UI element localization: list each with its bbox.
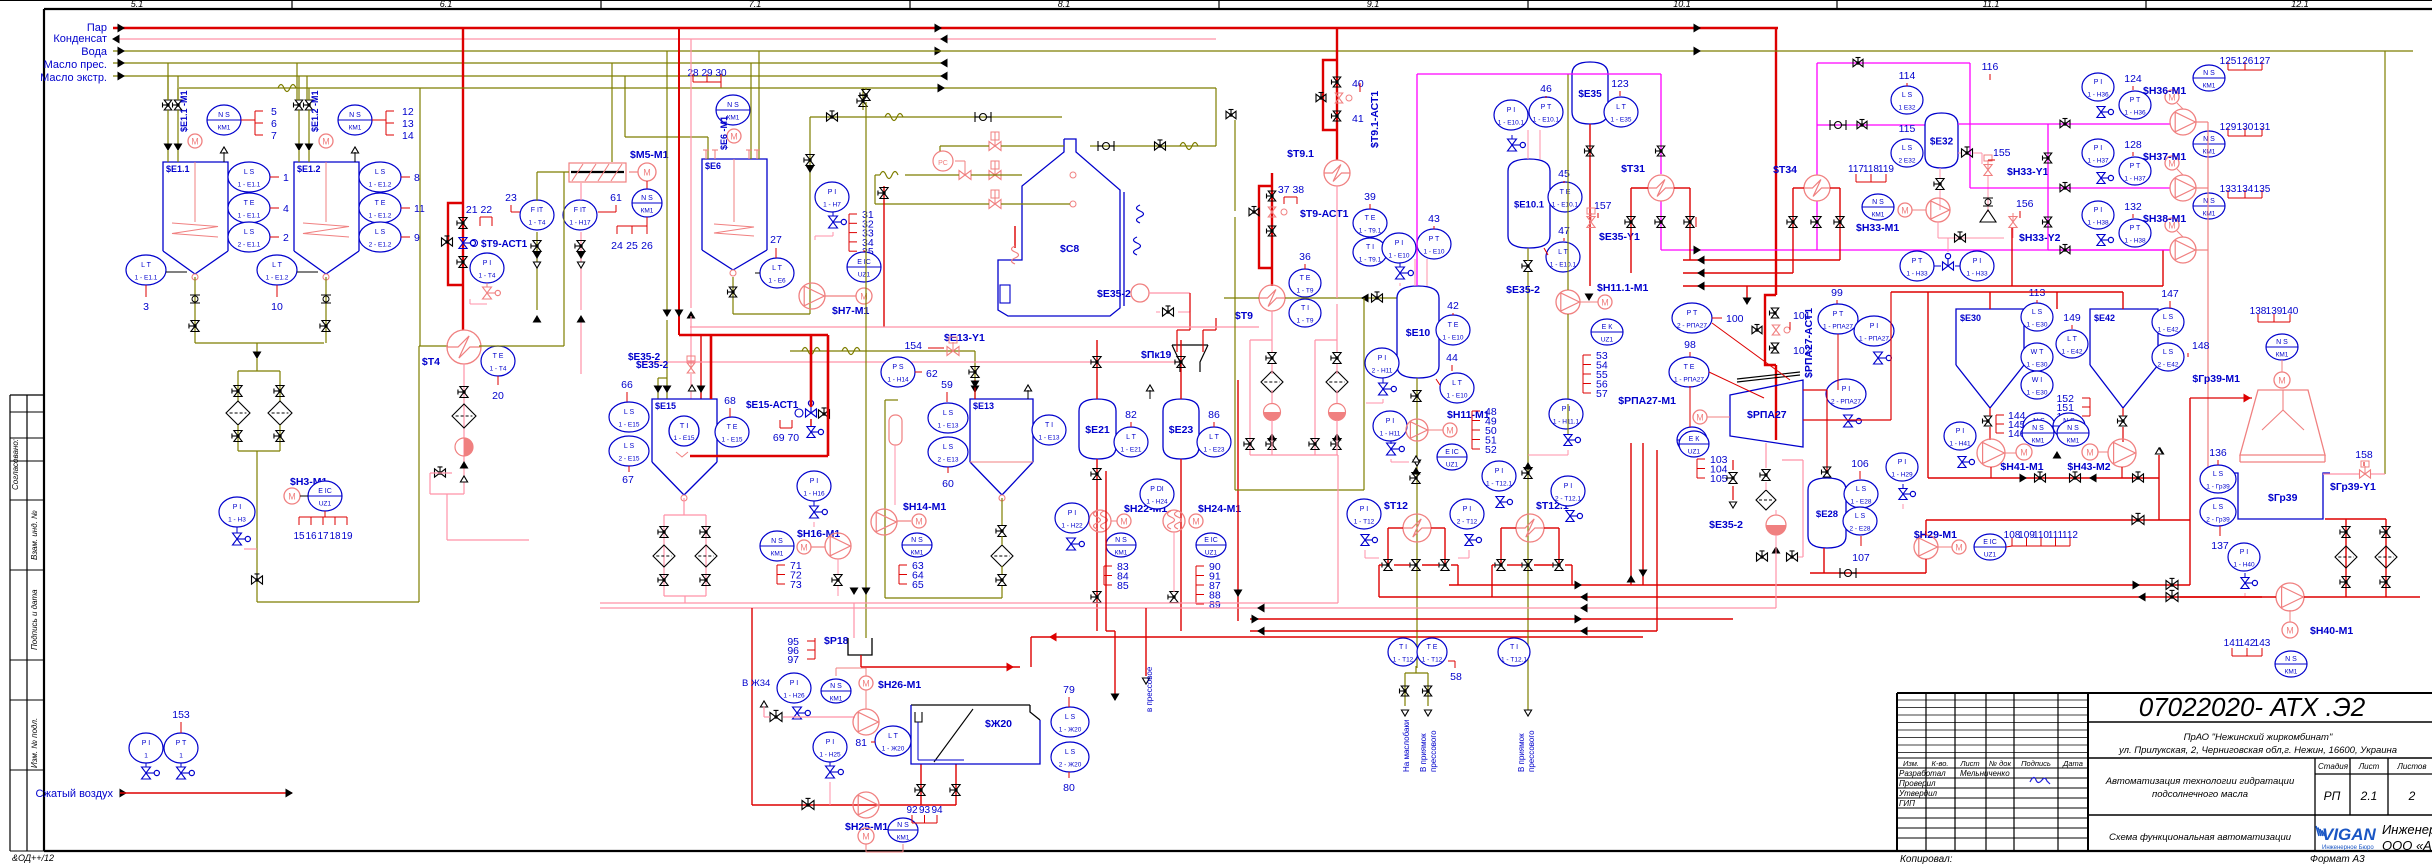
svg-text:P I: P I: [1360, 506, 1368, 513]
svg-text:4: 4: [283, 203, 289, 215]
svg-text:36: 36: [1299, 251, 1311, 263]
svg-text:M: M: [730, 132, 738, 142]
svg-text:T E: T E: [727, 424, 738, 431]
svg-text:P T: P T: [2130, 163, 2141, 170]
svg-text:P I: P I: [1842, 386, 1850, 393]
svg-text:20: 20: [492, 390, 504, 402]
svg-text:M: M: [862, 679, 870, 689]
svg-text:1 - Е21: 1 - Е21: [1121, 447, 1142, 454]
svg-text:1 - Ж20: 1 - Ж20: [882, 746, 905, 753]
svg-text:12.1: 12.1: [2291, 0, 2309, 9]
svg-text:1 - РПА27: 1 - РПА27: [1674, 377, 1704, 384]
svg-text:L T: L T: [141, 262, 151, 269]
svg-text:$Е10: $Е10: [1406, 327, 1431, 339]
svg-text:P I: P I: [1386, 418, 1394, 425]
svg-text:1 - Т12.1: 1 - Т12.1: [1486, 481, 1512, 488]
svg-text:8.1: 8.1: [1058, 0, 1071, 9]
svg-text:2 - Е42: 2 - Е42: [2158, 362, 2179, 369]
svg-text:99: 99: [1831, 287, 1843, 299]
svg-text:P I: P I: [1395, 240, 1403, 247]
svg-text:3: 3: [143, 301, 149, 313]
svg-text:123: 123: [1611, 78, 1629, 90]
svg-text:L S: L S: [244, 229, 255, 236]
svg-text:UZ1: UZ1: [1205, 550, 1218, 557]
svg-text:P I: P I: [810, 478, 818, 485]
svg-text:L S: L S: [1065, 714, 1076, 721]
svg-text:42: 42: [1447, 300, 1459, 312]
svg-text:P I: P I: [1068, 510, 1076, 517]
svg-text:89: 89: [1209, 599, 1221, 611]
svg-text:27: 27: [770, 234, 782, 246]
svg-text:39: 39: [1364, 191, 1376, 203]
svg-text:P T: P T: [1912, 258, 1923, 265]
svg-text:$Т9.1: $Т9.1: [1287, 148, 1314, 160]
svg-text:$Е35-2: $Е35-2: [1709, 519, 1743, 531]
svg-text:T I: T I: [1510, 644, 1518, 651]
svg-text:$Н33-Y2: $Н33-Y2: [2019, 232, 2061, 244]
svg-text:T E: T E: [1427, 644, 1438, 651]
svg-text:115: 115: [1899, 123, 1916, 135]
svg-text:№ док: № док: [1989, 759, 2012, 768]
svg-text:T I: T I: [1301, 305, 1309, 312]
svg-text:69 70: 69 70: [773, 432, 799, 444]
svg-text:46: 46: [1540, 83, 1552, 95]
svg-text:128: 128: [2124, 139, 2142, 151]
svg-text:N S: N S: [1115, 537, 1127, 544]
svg-text:L T: L T: [1616, 104, 1626, 111]
svg-text:2 - Е13: 2 - Е13: [938, 457, 959, 464]
svg-text:125: 125: [2220, 56, 2237, 67]
svg-text:157: 157: [1594, 200, 1612, 212]
svg-text:N S: N S: [2285, 656, 2297, 663]
svg-text:1 - Е1.1: 1 - Е1.1: [238, 182, 261, 189]
svg-text:2 - Е1.1: 2 - Е1.1: [238, 242, 261, 249]
svg-text:80: 80: [1063, 782, 1075, 794]
svg-text:12: 12: [402, 106, 414, 118]
svg-text:2 - Е1.2: 2 - Е1.2: [369, 242, 392, 249]
svg-text:Изм. № подл.: Изм. № подл.: [30, 718, 39, 768]
svg-text:$Н41-М1: $Н41-М1: [2000, 461, 2043, 473]
svg-text:73: 73: [790, 579, 802, 591]
svg-text:L T: L T: [888, 733, 898, 740]
svg-text:6: 6: [271, 118, 277, 130]
svg-text:T I: T I: [1045, 422, 1053, 429]
svg-text:E IC: E IC: [1445, 449, 1459, 456]
svg-text:68: 68: [724, 395, 736, 407]
svg-text:81: 81: [855, 737, 867, 749]
svg-text:1 Е32: 1 Е32: [1899, 105, 1916, 112]
svg-text:P I: P I: [828, 189, 836, 196]
svg-text:M: M: [1192, 517, 1200, 527]
svg-text:1 - Т9: 1 - Т9: [1297, 318, 1314, 325]
svg-text:L S: L S: [1855, 513, 1866, 520]
svg-text:29: 29: [701, 68, 713, 79]
svg-text:11.1: 11.1: [1983, 0, 2000, 9]
svg-text:$Т9: $Т9: [1235, 310, 1253, 322]
svg-text:97: 97: [787, 654, 799, 666]
svg-text:$Н43-М2: $Н43-М2: [2067, 461, 2110, 473]
svg-text:L T: L T: [1209, 434, 1219, 441]
svg-text:&ОД++/12: &ОД++/12: [12, 853, 54, 863]
svg-text:1: 1: [144, 753, 148, 760]
svg-text:$Н33-М1: $Н33-М1: [1856, 222, 1899, 234]
svg-text:M: M: [1120, 517, 1128, 527]
svg-text:Автоматизация технологии гидра: Автоматизация технологии гидратации: [2105, 776, 2295, 787]
svg-text:$Е42: $Е42: [2094, 313, 2115, 323]
svg-text:L S: L S: [244, 169, 255, 176]
svg-text:10.1: 10.1: [1673, 0, 1691, 9]
svg-text:Конденсат: Конденсат: [53, 33, 107, 45]
svg-text:$Е10.1: $Е10.1: [1514, 200, 1545, 211]
svg-text:$Е15: $Е15: [655, 401, 676, 411]
svg-text:126: 126: [2237, 56, 2254, 67]
svg-text:L S: L S: [1065, 749, 1076, 756]
svg-text:M: M: [1601, 298, 1609, 308]
svg-text:116: 116: [1982, 61, 1999, 73]
svg-text:N S: N S: [218, 112, 230, 119]
svg-text:$М5-М1: $М5-М1: [630, 149, 669, 161]
svg-text:1 - Е15: 1 - Е15: [674, 435, 695, 442]
svg-text:113: 113: [2029, 287, 2046, 299]
svg-text:2 Е32: 2 Е32: [1899, 158, 1916, 165]
svg-text:135: 135: [2254, 184, 2271, 195]
svg-text:2 - Е28: 2 - Е28: [1850, 526, 1871, 533]
svg-text:прессового: прессового: [1429, 730, 1438, 772]
svg-text:$Т9-АСТ1: $Т9-АСТ1: [1300, 208, 1349, 220]
svg-text:ПрАО "Нежинский жиркомбинат": ПрАО "Нежинский жиркомбинат": [2184, 732, 2333, 743]
svg-text:1 - Н41: 1 - Н41: [1949, 441, 1971, 448]
svg-text:21 22: 21 22: [466, 204, 492, 216]
svg-text:L T: L T: [1126, 434, 1136, 441]
svg-text:P T: P T: [1833, 311, 1844, 318]
svg-text:UZ1: UZ1: [1984, 552, 1997, 559]
svg-text:P I: P I: [1495, 468, 1503, 475]
svg-text:1 - Н24: 1 - Н24: [1146, 499, 1168, 506]
svg-text:1 - Т4: 1 - Т4: [479, 273, 496, 280]
svg-text:КМ1: КМ1: [897, 835, 910, 842]
svg-text:1 - Е1.1: 1 - Е1.1: [135, 275, 158, 282]
svg-text:N S: N S: [2067, 425, 2079, 432]
svg-text:N S: N S: [897, 822, 909, 829]
svg-text:$Н40-М1: $Н40-М1: [2310, 625, 2353, 637]
svg-text:9: 9: [414, 232, 420, 244]
svg-text:66: 66: [621, 379, 633, 391]
svg-text:L S: L S: [375, 169, 386, 176]
svg-text:16: 16: [305, 531, 317, 542]
svg-text:M: M: [2020, 448, 2028, 458]
svg-text:P I: P I: [1378, 355, 1386, 362]
svg-text:17: 17: [317, 531, 329, 542]
svg-text:N S: N S: [2032, 425, 2044, 432]
svg-text:T I: T I: [1366, 244, 1374, 251]
svg-text:W I: W I: [2032, 377, 2043, 384]
svg-text:62: 62: [926, 368, 938, 380]
svg-text:Дата: Дата: [2062, 759, 2083, 768]
svg-text:L S: L S: [2032, 309, 2043, 316]
svg-text:$Т9-АСТ1: $Т9-АСТ1: [481, 239, 528, 250]
svg-text:1 - Н16: 1 - Н16: [803, 491, 825, 498]
svg-text:1 - Е1.2: 1 - Е1.2: [266, 275, 289, 282]
svg-text:156: 156: [2016, 198, 2034, 210]
svg-text:94: 94: [931, 805, 943, 816]
svg-text:$E1.2 -М1: $E1.2 -М1: [310, 90, 320, 132]
svg-text:T E: T E: [244, 200, 255, 207]
svg-text:7: 7: [271, 130, 277, 142]
svg-text:L S: L S: [1902, 92, 1913, 99]
svg-text:136: 136: [2209, 447, 2227, 459]
svg-text:$Е23: $Е23: [1169, 424, 1194, 436]
svg-text:$E1.1 -М1: $E1.1 -М1: [179, 90, 189, 132]
svg-text:1 - Н25: 1 - Н25: [819, 752, 841, 759]
svg-text:82: 82: [1125, 409, 1137, 421]
svg-text:UZ1: UZ1: [319, 501, 332, 508]
svg-text:ООО «Авиган»: ООО «Авиган»: [2382, 838, 2432, 853]
svg-text:1 - Е10.1: 1 - Е10.1: [1498, 120, 1525, 127]
svg-text:07022020- АТХ .Э2: 07022020- АТХ .Э2: [2139, 692, 2366, 722]
svg-text:$РПА27-АСТ1: $РПА27-АСТ1: [1803, 308, 1815, 378]
svg-text:155: 155: [1993, 147, 2011, 159]
svg-text:5: 5: [271, 106, 277, 118]
svg-text:P I: P I: [483, 260, 491, 267]
svg-text:КМ1: КМ1: [2203, 149, 2216, 156]
svg-text:105: 105: [1710, 473, 1728, 485]
svg-text:1 - Е15: 1 - Е15: [722, 437, 743, 444]
svg-text:T E: T E: [1300, 275, 1311, 282]
svg-text:10: 10: [271, 301, 283, 313]
svg-text:1 - Е13: 1 - Е13: [938, 423, 959, 430]
svg-text:$Н24-М1: $Н24-М1: [1198, 503, 1241, 515]
svg-text:37 38: 37 38: [1278, 184, 1304, 196]
svg-text:M: M: [191, 137, 199, 147]
svg-text:КМ1: КМ1: [2203, 83, 2216, 90]
svg-text:61: 61: [610, 192, 622, 204]
svg-text:Согласовано:: Согласовано:: [11, 439, 20, 490]
svg-text:1 - Т9: 1 - Т9: [1297, 288, 1314, 295]
svg-text:К-во.: К-во.: [1932, 759, 1949, 768]
svg-text:1 - Т12: 1 - Т12: [1393, 657, 1414, 664]
svg-text:65: 65: [912, 579, 924, 591]
svg-text:L T: L T: [1452, 380, 1462, 387]
svg-text:N S: N S: [727, 102, 739, 109]
svg-text:1 - Е42: 1 - Е42: [2158, 327, 2179, 334]
svg-text:1 - Ж20: 1 - Ж20: [1059, 727, 1082, 734]
svg-text:Копировал:: Копировал:: [1900, 854, 1953, 865]
svg-text:P T: P T: [1541, 104, 1552, 111]
svg-text:$Е32: $Е32: [1930, 137, 1954, 148]
svg-text:Формат А3: Формат А3: [2310, 854, 2365, 865]
svg-text:2.1: 2.1: [2360, 789, 2378, 803]
svg-text:23: 23: [505, 192, 517, 204]
svg-text:86: 86: [1208, 409, 1220, 421]
svg-text:E IC: E IC: [1204, 537, 1218, 544]
svg-text:107: 107: [1852, 552, 1870, 564]
svg-text:M: M: [643, 168, 651, 178]
svg-text:L S: L S: [2163, 314, 2174, 321]
svg-text:129: 129: [2220, 122, 2237, 133]
svg-text:131: 131: [2254, 122, 2271, 133]
svg-text:M: M: [1901, 206, 1909, 216]
svg-text:1 - Е28: 1 - Е28: [1851, 499, 1872, 506]
svg-text:N S: N S: [641, 195, 653, 202]
svg-text:1 - Е1.2: 1 - Е1.2: [369, 213, 392, 220]
svg-text:N S: N S: [2203, 198, 2215, 205]
svg-text:$Н26-М1: $Н26-М1: [878, 679, 921, 691]
svg-text:F IT: F IT: [531, 207, 544, 214]
svg-text:1 - Т4: 1 - Т4: [529, 220, 546, 227]
svg-text:L S: L S: [943, 410, 954, 417]
svg-text:Вода: Вода: [81, 46, 108, 58]
svg-text:30: 30: [715, 68, 727, 79]
svg-text:1 - Е1.2: 1 - Е1.2: [369, 182, 392, 189]
svg-text:L S: L S: [624, 443, 635, 450]
svg-text:$Е35: $Е35: [1578, 89, 1602, 100]
svg-text:1 - Н17: 1 - Н17: [569, 220, 591, 227]
svg-text:1 - Е10: 1 - Е10: [1424, 249, 1445, 256]
svg-text:1 - Е35: 1 - Е35: [1611, 117, 1632, 124]
svg-text:В приямок: В приямок: [1517, 733, 1526, 772]
svg-text:1 - РПА27: 1 - РПА27: [1859, 336, 1889, 343]
svg-text:92: 92: [906, 805, 918, 816]
svg-text:P S: P S: [892, 364, 903, 371]
svg-text:$Е6 -М1: $Е6 -М1: [719, 116, 729, 150]
svg-text:$С8: $С8: [1060, 243, 1079, 255]
svg-text:138: 138: [2250, 306, 2267, 317]
svg-text:154: 154: [904, 340, 922, 352]
svg-text:В приямок: В приямок: [1419, 733, 1428, 772]
svg-text:1 - Н37: 1 - Н37: [2087, 158, 2109, 165]
svg-text:1 - Н11: 1 - Н11: [1380, 431, 1401, 438]
svg-text:1 - Е1.1: 1 - Е1.1: [238, 213, 261, 220]
svg-text:$РПА27: $РПА27: [1747, 409, 1787, 421]
svg-text:L S: L S: [1902, 145, 1913, 152]
svg-text:L T: L T: [1558, 249, 1568, 256]
svg-text:1 - Н29: 1 - Н29: [1891, 472, 1913, 479]
svg-text:1 - Т4: 1 - Т4: [490, 366, 507, 373]
svg-text:T I: T I: [680, 421, 689, 430]
svg-text:127: 127: [2254, 56, 2271, 67]
svg-text:1 - Е10.1: 1 - Е10.1: [1533, 117, 1560, 124]
svg-text:149: 149: [2063, 312, 2081, 324]
svg-text:L S: L S: [2163, 349, 2174, 356]
svg-text:158: 158: [2355, 449, 2373, 461]
svg-text:P T: P T: [1687, 310, 1698, 317]
svg-text:147: 147: [2161, 288, 2179, 300]
svg-text:P T: P T: [2130, 225, 2141, 232]
svg-text:VIGAN: VIGAN: [2322, 825, 2377, 844]
svg-text:КМ1: КМ1: [1872, 212, 1885, 219]
svg-text:E IC: E IC: [1983, 539, 1997, 546]
svg-text:$Гр39-Y1: $Гр39-Y1: [2330, 481, 2376, 493]
svg-text:L S: L S: [943, 444, 954, 451]
svg-text:P I: P I: [826, 739, 834, 746]
svg-text:L S: L S: [2213, 471, 2224, 478]
svg-text:M: M: [2086, 448, 2094, 458]
svg-text:119: 119: [1878, 164, 1894, 175]
svg-text:$Е30: $Е30: [1960, 313, 1981, 323]
svg-text:T E: T E: [1560, 189, 1571, 196]
svg-text:$Н11.1-М1: $Н11.1-М1: [1597, 282, 1649, 294]
svg-text:1: 1: [179, 753, 183, 760]
svg-text:1 - Е30: 1 - Е30: [2027, 322, 2048, 329]
svg-text:P I: P I: [1973, 258, 1981, 265]
svg-text:14: 14: [402, 130, 414, 142]
svg-text:UZ1: UZ1: [1688, 449, 1701, 456]
svg-text:M: M: [862, 832, 870, 842]
svg-text:PC: PC: [938, 160, 948, 167]
svg-text:124: 124: [2124, 73, 2142, 85]
svg-text:T E: T E: [1448, 322, 1459, 329]
svg-text:40: 40: [1352, 78, 1364, 90]
svg-text:1 - Е10: 1 - Е10: [1443, 335, 1464, 342]
svg-text:Утвердил: Утвердил: [1898, 789, 1938, 798]
svg-text:Взам. инд. №: Взам. инд. №: [30, 510, 39, 560]
svg-text:7.1: 7.1: [749, 0, 762, 9]
svg-text:19: 19: [341, 531, 353, 542]
svg-text:Подпись и дата: Подпись и дата: [30, 589, 39, 650]
svg-text:P I: P I: [1956, 428, 1964, 435]
svg-text:P I: P I: [1870, 323, 1878, 330]
svg-text:1 - Е30: 1 - Е30: [2027, 390, 2048, 397]
svg-text:Лист: Лист: [2358, 762, 2380, 771]
svg-text:КМ1: КМ1: [830, 696, 843, 703]
svg-text:$Т12: $Т12: [1384, 500, 1408, 512]
svg-text:M: M: [800, 543, 808, 553]
svg-text:18: 18: [329, 531, 341, 542]
svg-text:1 - Н22: 1 - Н22: [1061, 523, 1083, 530]
svg-text:P I: P I: [2240, 549, 2248, 556]
svg-text:P T: P T: [1429, 236, 1440, 243]
svg-text:52: 52: [1485, 444, 1497, 456]
svg-text:КМ1: КМ1: [771, 551, 784, 558]
svg-text:M: M: [860, 292, 868, 302]
svg-text:41: 41: [1352, 113, 1364, 125]
svg-text:Лист: Лист: [1959, 759, 1979, 768]
svg-text:UZ1: UZ1: [858, 272, 871, 279]
svg-text:P I: P I: [2094, 79, 2102, 86]
svg-text:M: M: [915, 517, 923, 527]
svg-text:134: 134: [2237, 184, 2254, 195]
svg-text:100: 100: [1726, 313, 1744, 325]
svg-text:КМ1: КМ1: [2285, 669, 2298, 676]
svg-text:117: 117: [1848, 164, 1864, 175]
svg-text:1 - Е10.1: 1 - Е10.1: [1550, 262, 1577, 269]
svg-text:25: 25: [626, 240, 638, 252]
svg-text:$Ж20: $Ж20: [985, 718, 1012, 730]
svg-text:P T: P T: [2130, 97, 2141, 104]
svg-text:137: 137: [2211, 540, 2229, 552]
svg-text:$E1.2: $E1.2: [297, 164, 321, 174]
svg-text:8: 8: [414, 172, 420, 184]
svg-text:143: 143: [2254, 638, 2271, 649]
svg-text:130: 130: [2237, 122, 2254, 133]
svg-text:Масло экстр.: Масло экстр.: [40, 72, 107, 84]
svg-text:ул. Прилукская, 2, Черниговска: ул. Прилукская, 2, Черниговская обл,г. Н…: [2118, 745, 2397, 756]
svg-text:98: 98: [1684, 339, 1696, 351]
svg-text:P I: P I: [142, 740, 150, 747]
svg-text:P I: P I: [1507, 107, 1515, 114]
svg-text:1 - Н7: 1 - Н7: [823, 202, 841, 209]
svg-text:26: 26: [641, 240, 653, 252]
svg-text:P I: P I: [1564, 483, 1572, 490]
svg-text:1 - Н38: 1 - Н38: [2124, 238, 2146, 245]
svg-text:1 - Е30: 1 - Е30: [2027, 362, 2048, 369]
svg-text:T E: T E: [1684, 364, 1695, 371]
svg-text:$Е35-2: $Е35-2: [1506, 284, 1540, 296]
svg-text:$РПА27-М1: $РПА27-М1: [1618, 395, 1676, 407]
svg-text:Листов: Листов: [2396, 762, 2426, 771]
svg-text:Подпись: Подпись: [2021, 759, 2051, 768]
svg-text:114: 114: [1899, 70, 1916, 82]
